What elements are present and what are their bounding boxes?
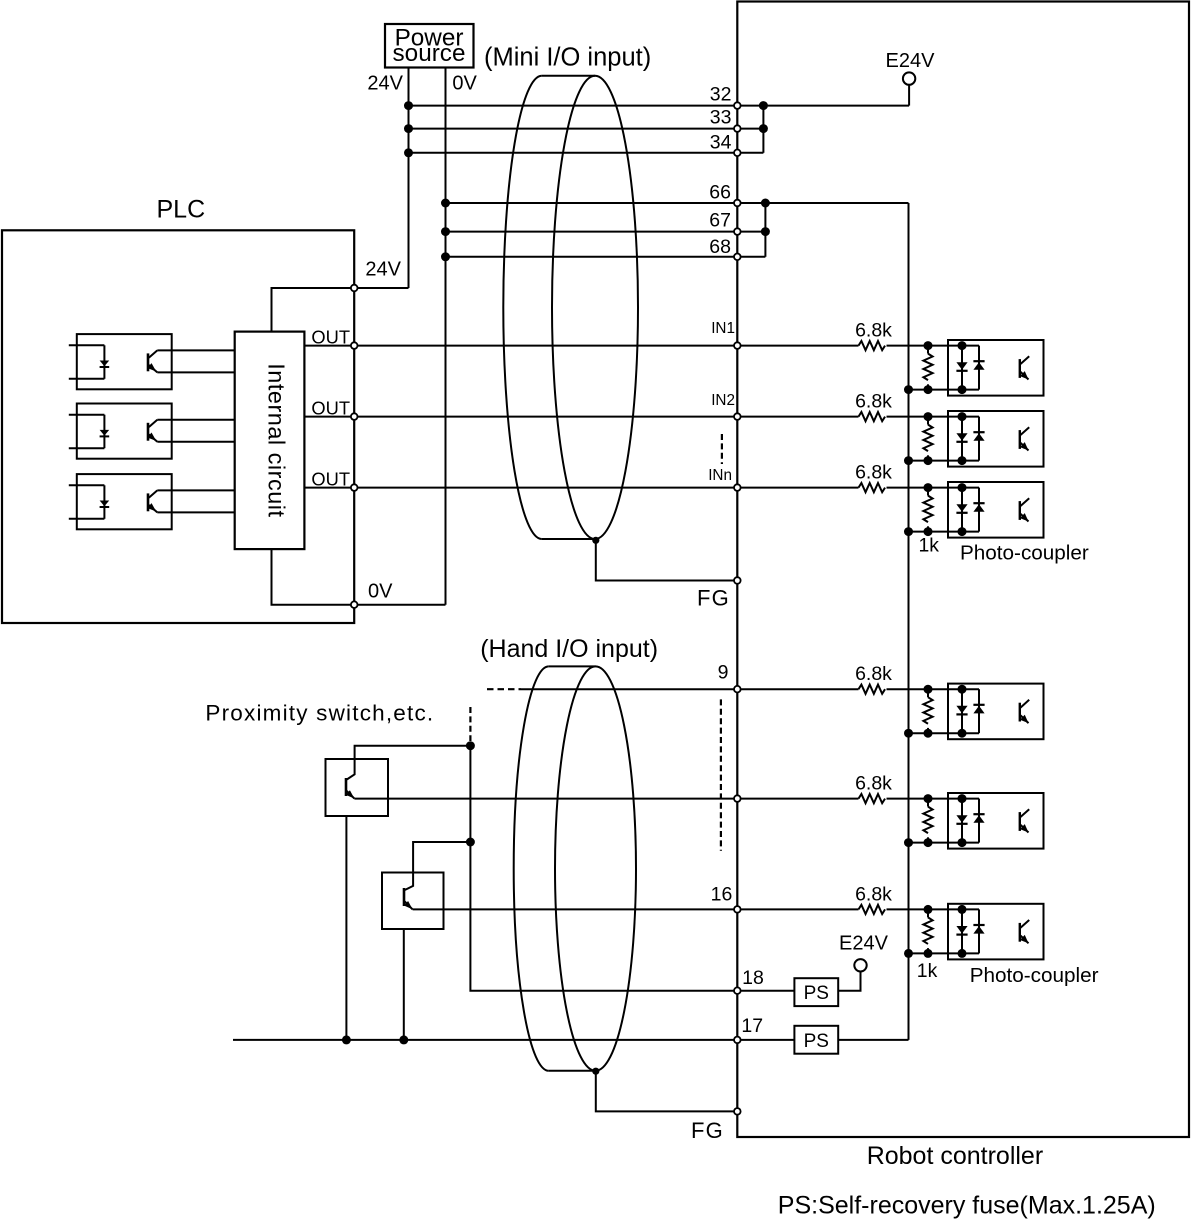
svg-text:E24V: E24V xyxy=(886,50,936,72)
junction prox1 E24V line xyxy=(466,741,475,750)
junction bottom 1k 9 xyxy=(924,729,933,738)
svg-text:6.8k: 6.8k xyxy=(855,663,892,685)
opto-coupler PLC 3 xyxy=(69,474,172,529)
pin robot y203.0 xyxy=(734,200,741,207)
svg-text:0V: 0V xyxy=(452,72,477,94)
wire E24V drop xyxy=(908,85,910,106)
diode LED up IN2 xyxy=(973,417,984,461)
junction top diode 16 xyxy=(958,905,967,914)
wire row IN2 inside robot xyxy=(737,416,858,418)
diode LED up INn xyxy=(973,488,984,532)
opto-coupler PLC 2 xyxy=(69,404,172,459)
svg-text:0V: 0V xyxy=(368,581,393,603)
junction 24V row 34 xyxy=(404,148,413,157)
svg-text:1k: 1k xyxy=(919,535,940,557)
junction top diode 9 xyxy=(958,685,967,694)
dashed continuation prox xyxy=(469,707,471,741)
pin PLC OUT3 xyxy=(351,484,358,491)
photo-coupler box hand2 xyxy=(948,793,1044,849)
internal circuit box xyxy=(235,332,305,549)
junction rail hand2 xyxy=(904,838,913,847)
pin PLC 0V xyxy=(351,601,358,608)
wire mini shield to FG xyxy=(596,540,738,580)
junction 0V row 66 xyxy=(441,199,450,208)
pin PLC OUT1 xyxy=(351,342,358,349)
wire bottom IN2 xyxy=(909,460,980,462)
wire row 32 xyxy=(409,105,910,107)
pin PLC OUT2 xyxy=(351,413,358,420)
junction bottom diode IN1 xyxy=(958,385,967,394)
pin robot y990.7 xyxy=(734,987,741,994)
svg-text:66: 66 xyxy=(709,182,731,204)
diode LED up IN1 xyxy=(973,346,984,390)
junction rail 9 xyxy=(904,729,913,738)
svg-text:IN1: IN1 xyxy=(711,320,735,337)
photo-coupler box 16 xyxy=(948,904,1044,960)
junction 32 xyxy=(759,101,768,110)
pin robot y909.4 xyxy=(734,906,741,913)
junction bottom 1k IN2 xyxy=(924,456,933,465)
wire row 34 xyxy=(409,152,764,154)
terminal E24V bottom xyxy=(854,959,866,971)
svg-text:18: 18 xyxy=(742,967,764,989)
junction 0V row 67 xyxy=(441,227,450,236)
wire bottom INn xyxy=(909,531,980,533)
pin robot y345.6 xyxy=(734,342,741,349)
svg-text:16: 16 xyxy=(711,884,733,906)
junction 0V row 68 xyxy=(441,252,450,261)
wire row input hand2 xyxy=(887,798,980,800)
svg-text:34: 34 xyxy=(710,131,732,153)
junction bottom diode 16 xyxy=(958,949,967,958)
svg-text:Photo-coupler: Photo-coupler xyxy=(960,541,1089,564)
photo-coupler box IN2 xyxy=(948,411,1044,467)
wire opto 1 emitter xyxy=(157,371,234,373)
wire junction vertical 32-34 xyxy=(762,106,764,153)
resistor 1k INn xyxy=(927,488,929,496)
junction bottom diode IN2 xyxy=(958,456,967,465)
photo-transistor 16 xyxy=(1020,920,1029,943)
wire prox2 collector up xyxy=(413,842,470,873)
resistor 6.8k hand2 xyxy=(859,794,886,803)
pin PLC 24V xyxy=(351,285,358,292)
wire row 9 xyxy=(521,688,859,690)
wire OUT row 3 xyxy=(304,487,737,489)
pin robot y580.5 xyxy=(734,577,741,584)
resistor 6.8k 9 xyxy=(859,685,886,694)
svg-text:IN2: IN2 xyxy=(711,392,735,409)
diode LED down IN1 xyxy=(956,346,967,390)
junction 66 xyxy=(761,199,770,208)
wire prox1 emitter down xyxy=(345,816,347,1040)
diode LED down hand2 xyxy=(956,799,967,843)
diode LED up 9 xyxy=(973,689,984,733)
wire E24V line down to row 18 xyxy=(470,746,737,991)
photo-transistor IN2 xyxy=(1020,427,1029,450)
proximity switch Q2 xyxy=(382,873,444,930)
junction 33 xyxy=(759,124,768,133)
resistor 6.8k INn xyxy=(859,483,886,492)
svg-text:(Mini I/O input): (Mini I/O input) xyxy=(484,43,651,71)
wire row input 9 xyxy=(887,688,980,690)
svg-text:Robot controller: Robot controller xyxy=(867,1142,1043,1170)
wire OUT row 1 xyxy=(304,345,737,347)
junction bottom 1k hand2 xyxy=(924,838,933,847)
wire bottom 9 xyxy=(909,732,980,734)
svg-text:PS: PS xyxy=(804,1031,829,1052)
photo-coupler box IN1 xyxy=(948,340,1044,396)
svg-text:FG: FG xyxy=(697,586,730,611)
junction bottom 1k 16 xyxy=(924,949,933,958)
svg-text:PLC: PLC xyxy=(157,196,206,224)
svg-text:6.8k: 6.8k xyxy=(855,883,892,905)
resistor 6.8k IN1 xyxy=(859,341,886,350)
pin robot y798.6 xyxy=(734,795,741,802)
junction top 1k IN2 xyxy=(924,412,933,421)
PLC box xyxy=(2,230,354,623)
svg-text:68: 68 xyxy=(709,236,731,258)
fuse PS 17 xyxy=(794,1026,838,1054)
junction top diode hand2 xyxy=(958,794,967,803)
junction rail INn xyxy=(904,527,913,536)
pin robot y256.8 xyxy=(734,253,741,260)
wire 24V to PLC xyxy=(354,287,408,289)
resistor 6.8k IN2 xyxy=(859,412,886,421)
junction rail IN1 xyxy=(904,385,913,394)
svg-text:33: 33 xyxy=(710,106,732,128)
junction top diode IN1 xyxy=(958,341,967,350)
wire junction vertical 66-68 xyxy=(764,203,766,257)
svg-text:INn: INn xyxy=(708,467,732,484)
wire rail E24V common xyxy=(908,203,910,1040)
svg-text:FG: FG xyxy=(691,1118,724,1143)
wire row 18 to PS xyxy=(737,990,794,992)
wire row 17 xyxy=(233,1039,794,1041)
resistor 1k 9 xyxy=(927,689,929,697)
svg-text:6.8k: 6.8k xyxy=(855,320,892,342)
svg-text:17: 17 xyxy=(741,1015,763,1037)
wire 0V to PLC xyxy=(354,604,445,606)
wire row 16 xyxy=(413,908,859,910)
wire PS18 to E24V xyxy=(838,972,860,991)
svg-text:Internal circuit: Internal circuit xyxy=(264,363,290,517)
photo-transistor INn xyxy=(1020,498,1029,521)
pin robot y1111.4 xyxy=(734,1108,741,1115)
wire opto 2 collector xyxy=(157,419,234,421)
wire prox2 emitter down xyxy=(403,929,405,1040)
proximity switch Q1 xyxy=(326,759,389,816)
junction 24V row 33 xyxy=(404,124,413,133)
wire row input IN2 xyxy=(887,416,980,418)
svg-text:6.8k: 6.8k xyxy=(855,391,892,413)
wire bottom hand2 xyxy=(909,842,980,844)
photo-transistor IN1 xyxy=(1020,356,1029,379)
resistor 1k IN1 xyxy=(927,346,929,354)
diode LED up hand2 xyxy=(973,799,984,843)
junction bottom diode INn xyxy=(958,527,967,536)
wire internal circuit to 0V pin xyxy=(272,549,355,605)
wire 0V vertical from power source xyxy=(445,68,447,605)
terminal E24V top xyxy=(903,72,915,84)
wire row 9 dashed lead xyxy=(487,688,521,690)
wire PS17 to rail xyxy=(838,1039,908,1041)
diode LED down INn xyxy=(956,488,967,532)
svg-text:PS: PS xyxy=(804,983,829,1004)
pin robot y105.6 xyxy=(734,102,741,109)
junction bottom diode hand2 xyxy=(958,838,967,847)
wire row 66 xyxy=(446,202,909,204)
svg-text:E24V: E24V xyxy=(839,933,889,955)
junction prox2 E24V line xyxy=(466,838,475,847)
svg-text:OUT: OUT xyxy=(311,469,350,490)
pin robot y231.6 xyxy=(734,228,741,235)
svg-text:Proximity switch,etc.: Proximity switch,etc. xyxy=(205,701,434,726)
svg-text:32: 32 xyxy=(710,84,732,106)
junction 67 xyxy=(761,227,770,236)
wire opto 2 emitter xyxy=(157,441,234,443)
wire row IN1 inside robot xyxy=(737,345,858,347)
wire row 67 xyxy=(446,231,766,233)
pin robot y152.8 xyxy=(734,150,741,157)
photo-coupler box 9 xyxy=(948,684,1044,740)
svg-text:OUT: OUT xyxy=(311,398,350,419)
power source box xyxy=(385,24,474,68)
svg-text:67: 67 xyxy=(709,210,731,232)
resistor 1k 16 xyxy=(927,909,929,917)
opto-coupler PLC 1 xyxy=(69,334,172,389)
wire bottom 16 xyxy=(909,952,980,954)
svg-text:6.8k: 6.8k xyxy=(855,773,892,795)
wire prox1 collector up xyxy=(355,746,471,759)
junction top 1k INn xyxy=(924,483,933,492)
wire row input IN1 xyxy=(887,345,980,347)
photo-transistor hand2 xyxy=(1020,809,1029,832)
svg-text:1k: 1k xyxy=(917,960,938,982)
diode LED down 9 xyxy=(956,689,967,733)
pin robot y416.6 xyxy=(734,413,741,420)
pin robot y128.6 xyxy=(734,125,741,132)
junction top diode IN2 xyxy=(958,412,967,421)
wire row hand2 xyxy=(354,798,858,800)
svg-text:24V: 24V xyxy=(367,72,403,94)
wire row 33 xyxy=(409,128,764,130)
dashed continuation INs xyxy=(721,434,723,464)
svg-text:(Hand I/O input): (Hand I/O input) xyxy=(480,635,658,663)
svg-text:PS:Self-recovery fuse(Max.1.25: PS:Self-recovery fuse(Max.1.25A) xyxy=(778,1192,1156,1220)
junction rail 16 xyxy=(904,949,913,958)
junction rail IN2 xyxy=(904,456,913,465)
resistor 1k IN2 xyxy=(927,417,929,425)
wire row input INn xyxy=(887,487,980,489)
junction bottom diode 9 xyxy=(958,729,967,738)
diode LED down 16 xyxy=(956,909,967,953)
svg-text:24V: 24V xyxy=(365,259,401,281)
diode LED down IN2 xyxy=(956,417,967,461)
junction prox2 0V xyxy=(399,1035,408,1044)
wire internal circuit to 24V pin xyxy=(272,288,355,332)
junction mini shield xyxy=(592,537,599,544)
cable shield Hand I/O xyxy=(514,666,636,1070)
photo-coupler box INn xyxy=(948,482,1044,538)
junction top 1k 16 xyxy=(924,905,933,914)
wire hand shield to FG xyxy=(596,1071,738,1111)
pin robot y689.2 xyxy=(734,686,741,693)
photo-transistor 9 xyxy=(1020,700,1029,723)
wire opto 1 collector xyxy=(157,349,234,351)
wire OUT row 2 xyxy=(304,416,737,418)
wire 24V vertical from power source xyxy=(408,68,410,289)
junction 24V row 32 xyxy=(404,101,413,110)
svg-text:6.8k: 6.8k xyxy=(855,462,892,484)
junction bottom 1k INn xyxy=(924,527,933,536)
junction top 1k hand2 xyxy=(924,794,933,803)
wire bottom IN1 xyxy=(909,389,980,391)
svg-text:OUT: OUT xyxy=(311,327,350,348)
svg-text:9: 9 xyxy=(718,662,729,684)
pin robot y1039.9 xyxy=(734,1037,741,1044)
junction hand shield xyxy=(592,1068,599,1075)
wire row IN3 inside robot xyxy=(737,487,858,489)
junction bottom 1k IN1 xyxy=(924,385,933,394)
junction top diode INn xyxy=(958,483,967,492)
wire opto 3 emitter xyxy=(157,511,234,513)
svg-text:Photo-coupler: Photo-coupler xyxy=(970,964,1099,987)
pin robot y487.6 xyxy=(734,484,741,491)
junction top 1k 9 xyxy=(924,685,933,694)
wire row input 16 xyxy=(887,908,980,910)
dashed continuation hand inputs xyxy=(720,699,722,850)
junction prox1 0V xyxy=(342,1035,351,1044)
diode LED up 16 xyxy=(973,909,984,953)
robot controller box xyxy=(737,2,1189,1138)
junction top 1k IN1 xyxy=(924,341,933,350)
fuse PS 18 xyxy=(794,978,838,1006)
resistor 6.8k 16 xyxy=(859,905,886,914)
resistor 1k hand2 xyxy=(927,799,929,807)
cable shield Mini I/O xyxy=(503,76,638,539)
wire opto 3 collector xyxy=(157,489,234,491)
wire row 68 xyxy=(446,256,766,258)
svg-text:source: source xyxy=(393,40,466,67)
